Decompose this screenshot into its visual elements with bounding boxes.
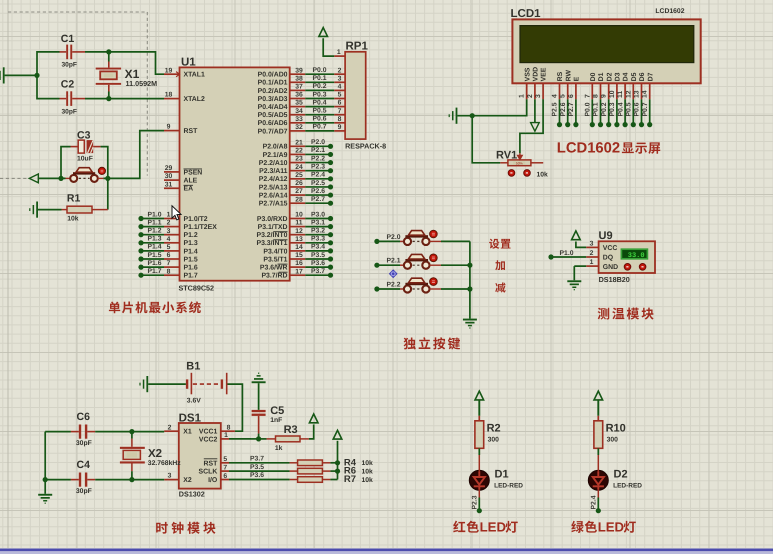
svg-text:P1.2: P1.2 bbox=[184, 232, 198, 239]
svg-text:P0.6/AD6: P0.6/AD6 bbox=[258, 120, 288, 127]
push-button P2.1 bbox=[404, 262, 411, 269]
wire C5 top bbox=[258, 383, 260, 410]
wire P0.3 to RP1 bbox=[305, 98, 334, 100]
wire C2 to XTAL2 bbox=[85, 98, 164, 100]
battery B1 bbox=[186, 379, 188, 388]
wire D2 to node bbox=[597, 489, 599, 497]
svg-text:36: 36 bbox=[295, 92, 303, 99]
LCD pin D5 (12) bbox=[632, 83, 634, 99]
node LCD P0.1 bbox=[598, 122, 603, 127]
svg-text:300: 300 bbox=[607, 436, 619, 443]
svg-text:17: 17 bbox=[295, 268, 303, 275]
svg-text:26: 26 bbox=[295, 180, 303, 187]
svg-text:30pF: 30pF bbox=[76, 488, 92, 495]
wire RV1 right pin bbox=[531, 162, 543, 164]
caption clock module bbox=[156, 522, 168, 534]
svg-text:23: 23 bbox=[295, 156, 303, 163]
wire D1 to node bbox=[478, 489, 480, 497]
svg-text:D7: D7 bbox=[647, 72, 654, 81]
pin P3.4 (14) bbox=[290, 250, 306, 252]
wire VEE to RV1 wiper bbox=[520, 99, 543, 153]
svg-text:LED: LED bbox=[598, 520, 624, 535]
pin P2.7 (28) bbox=[290, 202, 306, 204]
svg-text:10: 10 bbox=[609, 90, 616, 98]
svg-text:P2.4: P2.4 bbox=[311, 172, 325, 179]
svg-text:10k: 10k bbox=[67, 216, 79, 223]
svg-text:P1.6: P1.6 bbox=[184, 265, 198, 272]
wire RV1 left pin bbox=[500, 162, 508, 164]
wire LCD P0.5 bbox=[632, 99, 634, 124]
svg-text:P3.6/WR: P3.6/WR bbox=[260, 265, 288, 272]
junction node RST rail bbox=[105, 176, 110, 181]
pin P3.3 (13) bbox=[290, 242, 306, 244]
svg-text:P3.1/TXD: P3.1/TXD bbox=[258, 224, 288, 231]
svg-text:P2.0: P2.0 bbox=[311, 139, 325, 146]
svg-text:8: 8 bbox=[338, 116, 342, 123]
svg-text:VDD: VDD bbox=[533, 67, 540, 82]
svg-text:18: 18 bbox=[165, 92, 173, 99]
svg-text:RW: RW bbox=[565, 70, 572, 82]
node P1.7 bbox=[138, 273, 143, 278]
svg-text:LCD1602: LCD1602 bbox=[557, 141, 620, 157]
svg-text:STC89C52: STC89C52 bbox=[179, 284, 215, 293]
wire X2 top to X1 pin bbox=[132, 431, 164, 433]
svg-text:30pF: 30pF bbox=[62, 62, 77, 69]
svg-text:P2.5: P2.5 bbox=[311, 180, 325, 187]
node LCD P0.6 bbox=[639, 122, 644, 127]
push-button RESET bbox=[66, 177, 71, 179]
svg-text:X1: X1 bbox=[183, 429, 192, 436]
svg-text:5: 5 bbox=[338, 92, 342, 99]
svg-text:I/O: I/O bbox=[208, 477, 218, 484]
node LCD P0.0 bbox=[590, 122, 595, 127]
svg-text:P0.6: P0.6 bbox=[634, 102, 641, 116]
wire P2.1 bbox=[305, 153, 330, 155]
svg-text:6: 6 bbox=[167, 252, 171, 259]
resistor R4 bbox=[290, 462, 298, 464]
pin XTAL1 (19) bbox=[164, 73, 180, 75]
svg-text:14: 14 bbox=[295, 244, 303, 251]
wire B1 to VCC1 bbox=[228, 384, 243, 431]
pin P0.1 (38) bbox=[290, 81, 306, 83]
svg-text:P0.3/AD3: P0.3/AD3 bbox=[258, 96, 288, 103]
svg-text:P0.5: P0.5 bbox=[313, 108, 327, 115]
pin P0.4 (35) bbox=[290, 106, 306, 108]
wire pullup rail bbox=[337, 441, 339, 480]
LCD pin D1 (8) bbox=[600, 83, 602, 99]
pin XTAL2 (18) bbox=[164, 98, 180, 100]
ground terminal U9 bbox=[567, 280, 581, 282]
svg-text:P1.5: P1.5 bbox=[148, 252, 162, 259]
RP1 pin 3 bbox=[334, 81, 345, 83]
svg-text:6: 6 bbox=[568, 94, 575, 98]
svg-text:P0.1/AD1: P0.1/AD1 bbox=[258, 80, 288, 87]
svg-text:11: 11 bbox=[617, 91, 624, 98]
node P2.1 key bbox=[374, 263, 379, 268]
svg-text:P3.4: P3.4 bbox=[311, 244, 325, 251]
svg-text:10k: 10k bbox=[362, 460, 374, 467]
svg-text:LED-RED: LED-RED bbox=[494, 483, 523, 490]
wire C4 right bbox=[87, 479, 95, 481]
wire P2.4 bbox=[305, 178, 330, 180]
origin marker bbox=[389, 269, 398, 278]
node LCD P2.6 bbox=[565, 122, 570, 127]
node LCD P0.2 bbox=[606, 122, 611, 127]
resistor R6 bbox=[290, 470, 298, 472]
potentiometer RV1 bbox=[508, 160, 531, 166]
capacitor C4 bbox=[79, 473, 81, 487]
wire C6 rail bbox=[44, 432, 46, 480]
pin P3.0 (10) bbox=[290, 218, 306, 220]
svg-text:9: 9 bbox=[167, 124, 171, 131]
svg-text:22: 22 bbox=[295, 148, 303, 155]
wire P0.7 to RP1 bbox=[305, 130, 334, 132]
pin X1 (2) bbox=[164, 430, 179, 432]
svg-text:P0.3: P0.3 bbox=[313, 91, 327, 98]
svg-text:P2.6: P2.6 bbox=[311, 188, 325, 195]
junction node C4/gnd bbox=[43, 477, 48, 482]
crystal X1 bbox=[96, 68, 121, 70]
node P1.4 bbox=[138, 248, 143, 253]
wire P2.1 key bbox=[377, 264, 400, 266]
svg-text:12: 12 bbox=[295, 228, 303, 235]
capacitor C1 pins bbox=[60, 51, 67, 53]
svg-text:2: 2 bbox=[168, 424, 172, 431]
svg-text:P0.0: P0.0 bbox=[585, 102, 592, 116]
svg-text:P0.6: P0.6 bbox=[313, 116, 327, 123]
svg-text:P1.1: P1.1 bbox=[148, 219, 162, 226]
dashed stub to reset terminal bbox=[0, 177, 29, 179]
dashed region border top bbox=[8, 11, 147, 13]
svg-text:P2.2: P2.2 bbox=[387, 281, 401, 288]
LCD pin E (6) bbox=[575, 83, 577, 99]
pin P0.7 (32) bbox=[290, 130, 306, 132]
pin P0.6 (33) bbox=[290, 122, 306, 124]
svg-text:1: 1 bbox=[519, 94, 526, 98]
svg-text:8: 8 bbox=[593, 94, 600, 98]
svg-text:U1: U1 bbox=[181, 57, 196, 69]
svg-text:P3.7: P3.7 bbox=[250, 456, 264, 463]
capacitor C1 bbox=[66, 45, 68, 60]
svg-text:D3: D3 bbox=[615, 72, 622, 81]
svg-text:XTAL2: XTAL2 bbox=[184, 96, 205, 103]
svg-text:LCD1: LCD1 bbox=[511, 8, 542, 20]
display LCD1 body bbox=[512, 19, 700, 83]
svg-text:P1.5: P1.5 bbox=[184, 256, 198, 263]
svg-text:P0.5/AD5: P0.5/AD5 bbox=[258, 112, 288, 119]
svg-text:P1.4: P1.4 bbox=[148, 244, 162, 251]
node P2.0 bbox=[328, 144, 333, 149]
button P2.1 actuator dot bbox=[430, 254, 438, 262]
svg-text:E: E bbox=[574, 76, 581, 81]
dashed region border right bbox=[146, 12, 148, 176]
svg-text:P0.2: P0.2 bbox=[313, 83, 327, 90]
svg-text:D2: D2 bbox=[614, 468, 628, 480]
wire rail to ground bbox=[44, 480, 46, 494]
junction node key2 bbox=[467, 263, 472, 268]
pin P1.7 (8) bbox=[164, 274, 180, 276]
svg-text:1k: 1k bbox=[275, 445, 283, 452]
pin P0.0 (39) bbox=[290, 73, 306, 75]
svg-text:RESPACK-8: RESPACK-8 bbox=[345, 141, 386, 150]
power terminal R10 bbox=[594, 391, 603, 400]
ground terminal B1 bbox=[146, 376, 148, 392]
wire P3.0 bbox=[305, 218, 330, 220]
pin P1.5 (6) bbox=[164, 258, 180, 260]
pin P3.6 (16) bbox=[290, 266, 306, 268]
wire P0.6 to RP1 bbox=[305, 122, 334, 124]
pin VCC1 (8) bbox=[221, 430, 235, 432]
node P1.5 bbox=[138, 256, 143, 261]
wire P0.4 to RP1 bbox=[305, 106, 334, 108]
pin RST (9) bbox=[164, 130, 180, 132]
svg-text:VCC2: VCC2 bbox=[199, 437, 218, 444]
LCD pin D0 (7) bbox=[591, 83, 593, 99]
svg-text:R10: R10 bbox=[606, 423, 626, 435]
junction node X1 bottom bbox=[106, 96, 111, 101]
svg-text:D2: D2 bbox=[606, 72, 613, 81]
wire P3.5 bbox=[229, 470, 290, 472]
svg-text:4: 4 bbox=[338, 84, 342, 91]
svg-text:P3.1: P3.1 bbox=[311, 219, 325, 226]
node P2.1 bbox=[328, 152, 333, 157]
svg-text:P2.4/A12: P2.4/A12 bbox=[259, 176, 288, 183]
ground terminal above C5 bbox=[252, 381, 266, 383]
wire P0.1 to RP1 bbox=[305, 81, 334, 83]
wire R6 to rail bbox=[330, 470, 337, 472]
junction node reset-left bbox=[58, 176, 63, 181]
LCD pin D3 (10) bbox=[616, 83, 618, 99]
caption red LED bbox=[453, 521, 465, 533]
junction node X2 top bbox=[129, 429, 134, 434]
svg-text:10k: 10k bbox=[362, 477, 374, 484]
wire ground to R1 bbox=[38, 209, 62, 211]
ground terminal left of C1/C2 bbox=[3, 67, 5, 83]
junction node VCC2/C5/R3 bbox=[256, 436, 261, 441]
svg-text:37: 37 bbox=[295, 84, 303, 91]
node P3.1 bbox=[328, 224, 333, 229]
svg-text:P0.2: P0.2 bbox=[601, 102, 608, 116]
window bottom border bbox=[0, 549, 773, 552]
svg-text:7: 7 bbox=[167, 260, 171, 267]
junction node VSS/RV1 bbox=[470, 113, 475, 118]
svg-text:P2.6: P2.6 bbox=[560, 102, 567, 116]
capacitor C6 bbox=[79, 425, 81, 439]
svg-text:DS1302: DS1302 bbox=[179, 489, 205, 498]
resistor R1 bbox=[67, 206, 92, 213]
svg-text:11.0592M: 11.0592M bbox=[126, 79, 158, 88]
svg-text:10k: 10k bbox=[362, 469, 374, 476]
svg-text:P3.0: P3.0 bbox=[311, 211, 325, 218]
node P3.6 bbox=[328, 265, 333, 270]
pin P2.2 (23) bbox=[290, 162, 306, 164]
wire C3 right bbox=[93, 146, 100, 148]
resistor pack RP1 bbox=[345, 52, 366, 139]
svg-text:3: 3 bbox=[535, 94, 542, 98]
svg-text:3: 3 bbox=[590, 241, 594, 248]
wire power to VCC bbox=[576, 242, 586, 248]
node P1.0 bbox=[138, 216, 143, 221]
svg-text:1: 1 bbox=[224, 432, 228, 439]
svg-text:D0: D0 bbox=[590, 72, 597, 81]
node P2.4 bbox=[328, 176, 333, 181]
resistor R3 bbox=[276, 436, 301, 442]
RP1 pin 2 bbox=[334, 73, 345, 75]
wire DQ bbox=[551, 256, 586, 258]
wire P0.0 to RP1 bbox=[305, 73, 334, 75]
pin R4 row (5) bbox=[221, 462, 229, 464]
caption set bbox=[489, 239, 499, 249]
svg-text:P2.0/A8: P2.0/A8 bbox=[263, 144, 288, 151]
LCD pin VEE (3) bbox=[542, 83, 544, 99]
svg-text:RST: RST bbox=[184, 128, 199, 135]
wire P1.3 bbox=[141, 242, 164, 244]
ground terminal at R1 bbox=[36, 202, 38, 218]
wire P1.7 bbox=[141, 274, 164, 276]
wire junction down to R1 bbox=[107, 178, 109, 209]
svg-text:300: 300 bbox=[488, 436, 500, 443]
LED D1 bbox=[469, 470, 489, 490]
svg-text:1: 1 bbox=[590, 259, 594, 266]
svg-text:6: 6 bbox=[223, 473, 227, 480]
wire X1 bottom stem bbox=[108, 85, 110, 92]
RP1 pin 1 bbox=[334, 55, 345, 57]
svg-text:LED-RED: LED-RED bbox=[613, 483, 642, 490]
svg-text:P0.4/AD4: P0.4/AD4 bbox=[258, 104, 288, 111]
U9 display bbox=[621, 249, 647, 259]
rtc DS1 body bbox=[179, 423, 221, 489]
pin P1.2 (3) bbox=[164, 234, 180, 236]
push-button P2.0 bbox=[404, 238, 411, 245]
svg-text:1nF: 1nF bbox=[270, 417, 282, 424]
resistor R2 bbox=[475, 421, 484, 449]
svg-text:8: 8 bbox=[227, 424, 231, 431]
LCD pin D2 (9) bbox=[608, 83, 610, 99]
node P1.0 sensor bbox=[548, 254, 553, 259]
svg-text:SCLK: SCLK bbox=[199, 469, 218, 476]
pin P0.3 (36) bbox=[290, 98, 306, 100]
svg-text:D4: D4 bbox=[623, 72, 630, 81]
RP1 pin 7 bbox=[334, 114, 345, 116]
node P3.4 bbox=[328, 248, 333, 253]
svg-text:15: 15 bbox=[295, 252, 303, 259]
wire terminal to button bbox=[38, 177, 65, 179]
svg-text:P3.6: P3.6 bbox=[311, 260, 325, 267]
svg-text:5: 5 bbox=[560, 94, 567, 98]
LED D2 bbox=[588, 470, 608, 490]
junction node R4 rail bbox=[335, 460, 340, 465]
wire C4 left bbox=[45, 479, 71, 481]
svg-text:RS: RS bbox=[557, 71, 564, 81]
push-button P2.2 bbox=[404, 285, 411, 292]
svg-text:3: 3 bbox=[168, 473, 172, 480]
RP1 pin 8 bbox=[334, 122, 345, 124]
svg-text:10: 10 bbox=[295, 212, 303, 219]
node LCD P2.5 bbox=[557, 122, 562, 127]
pin EA (31) bbox=[164, 187, 180, 189]
button P2.2 actuator dot bbox=[430, 278, 438, 286]
temperature sensor U9 body bbox=[599, 241, 655, 273]
svg-text:U9: U9 bbox=[599, 230, 613, 242]
node LCD P0.5 bbox=[631, 122, 636, 127]
LCD pin VDD (2) bbox=[534, 83, 536, 99]
svg-text:P2.7: P2.7 bbox=[311, 196, 325, 203]
button P2.0 actuator dot bbox=[430, 230, 438, 238]
LCD pin D6 (13) bbox=[641, 83, 643, 99]
wire P1.6 bbox=[141, 266, 164, 268]
caption plus bbox=[495, 260, 505, 270]
pin VCC (3) bbox=[586, 246, 598, 248]
wire P3.3 bbox=[305, 242, 330, 244]
wire P1.2 bbox=[141, 234, 164, 236]
pin P2.5 (26) bbox=[290, 186, 306, 188]
pin X2 (3) bbox=[164, 479, 179, 481]
U9 buttons bbox=[624, 264, 631, 271]
pin ALE (30) bbox=[164, 179, 180, 181]
svg-text:8: 8 bbox=[167, 268, 171, 275]
pin VCC2 (1) bbox=[221, 438, 229, 440]
svg-text:P2.7: P2.7 bbox=[568, 102, 575, 116]
svg-text:P2.1: P2.1 bbox=[387, 258, 401, 265]
svg-text:R7: R7 bbox=[344, 474, 356, 485]
wire RST net bbox=[103, 131, 164, 179]
pin P0.5 (34) bbox=[290, 114, 306, 116]
pin P3.7 (17) bbox=[290, 274, 306, 276]
wire power to RP1 pin1 bbox=[323, 38, 334, 56]
wire P3.1 bbox=[305, 226, 330, 228]
node P1.6 bbox=[138, 265, 143, 270]
junction node R6 rail bbox=[335, 469, 340, 474]
wire ground to B1 bbox=[148, 383, 186, 385]
LCD pin VSS (1) bbox=[526, 83, 528, 99]
svg-text:P0.3: P0.3 bbox=[609, 102, 616, 116]
wire P3.5 bbox=[305, 258, 330, 260]
LCD pin D7 (14) bbox=[649, 83, 651, 99]
ground clock module bbox=[38, 494, 52, 496]
pin P0.2 (37) bbox=[290, 89, 306, 91]
svg-text:P3.3: P3.3 bbox=[311, 236, 325, 243]
wire R10 to D2 bbox=[597, 448, 599, 462]
svg-text:14: 14 bbox=[642, 90, 649, 98]
wire P2.2 bbox=[305, 162, 330, 164]
svg-text:P2.2/A10: P2.2/A10 bbox=[259, 160, 288, 167]
svg-text:P1.1/T2EX: P1.1/T2EX bbox=[184, 224, 218, 231]
svg-text:13: 13 bbox=[295, 236, 303, 243]
svg-text:X2: X2 bbox=[148, 448, 162, 460]
svg-text:P3.5: P3.5 bbox=[311, 252, 325, 259]
svg-text:P3.7/RD: P3.7/RD bbox=[261, 273, 287, 280]
svg-text:24: 24 bbox=[295, 164, 303, 171]
svg-text:D1: D1 bbox=[598, 72, 605, 81]
power terminal above RP1 bbox=[319, 28, 328, 37]
svg-text:P0.0/AD0: P0.0/AD0 bbox=[258, 72, 288, 79]
svg-text:28: 28 bbox=[295, 196, 303, 203]
svg-text:D5: D5 bbox=[631, 72, 638, 81]
wire P2.1 to rail bbox=[441, 264, 470, 266]
svg-text:38: 38 bbox=[295, 75, 303, 82]
node P2.0 key bbox=[374, 239, 379, 244]
wire X2 bottom to X2 pin bbox=[132, 479, 164, 481]
svg-text:P0.7: P0.7 bbox=[642, 102, 649, 116]
wire P2.5 bbox=[305, 186, 330, 188]
wire C6 left bbox=[45, 431, 71, 433]
wire LCD P0.7 bbox=[649, 99, 651, 124]
wire R3 to power bbox=[300, 438, 309, 440]
wire keys rail bbox=[469, 241, 471, 318]
wire P2.2 to rail bbox=[441, 288, 470, 290]
input terminal RESET bbox=[29, 174, 38, 183]
caption independent keys bbox=[404, 337, 416, 349]
